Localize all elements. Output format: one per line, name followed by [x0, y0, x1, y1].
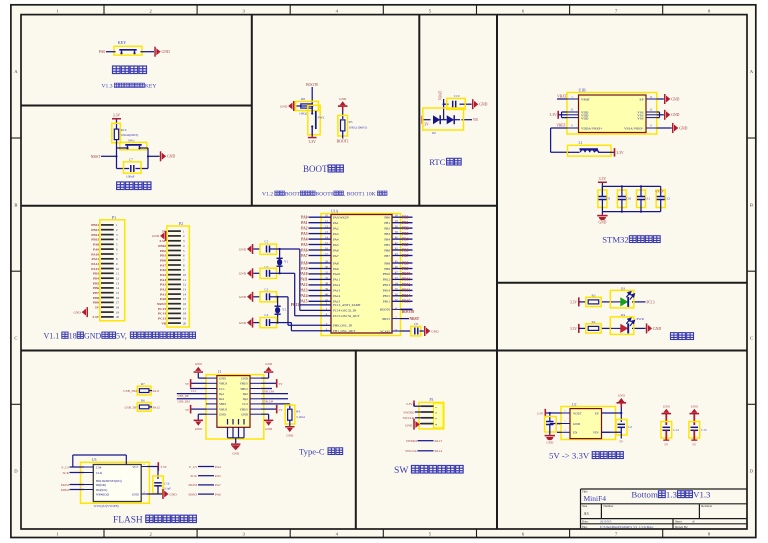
svg-text:SWCLK: SWCLK [403, 416, 415, 420]
resistor R3 [586, 297, 601, 306]
pin P2-20 [168, 322, 181, 324]
wire PB5 [401, 244, 413, 246]
ground GND shield [231, 443, 241, 450]
pin PA5 [321, 244, 331, 246]
svg-text:GND: GND [280, 104, 288, 108]
svg-text:5V,: 5V, [116, 331, 127, 340]
svg-text:PA9: PA9 [333, 267, 339, 271]
svg-text:BOOT0: BOOT0 [315, 191, 333, 197]
svg-text:PA12: PA12 [333, 283, 341, 287]
wire shield [228, 437, 245, 439]
svg-text:3.3V: 3.3V [550, 113, 557, 117]
pin PA8 [321, 262, 331, 264]
wire PB1 [401, 222, 413, 224]
capacitor C9 [598, 190, 607, 208]
wire loop [117, 147, 128, 149]
capacitor C10 [617, 190, 626, 208]
svg-text:GND: GND [546, 440, 554, 444]
pin DO [84, 489, 93, 491]
svg-text:GND: GND [653, 327, 661, 331]
pin P2-10 [168, 274, 181, 276]
svg-text:VREF: VREF [556, 124, 565, 128]
svg-text:C12: C12 [665, 196, 671, 200]
svg-text:RTC: RTC [429, 157, 445, 167]
wire VDD bracket [561, 112, 563, 118]
svg-text:PA2: PA2 [333, 226, 339, 230]
svg-text:SWDIO: SWDIO [403, 410, 415, 414]
wire cap rail top [602, 185, 660, 187]
svg-text:5.1KΩ: 5.1KΩ [296, 415, 305, 419]
wire Dp1 USB_DP [177, 393, 206, 395]
svg-text:L1: L1 [579, 141, 583, 145]
svg-text:PB13: PB13 [91, 228, 99, 232]
wire PB12 [401, 284, 413, 286]
svg-text:EP: EP [640, 98, 644, 102]
svg-text:3.3V: 3.3V [599, 177, 607, 181]
wire PA8 [309, 262, 322, 264]
wire GND bottom-left [198, 413, 206, 415]
svg-text:1.3: 1.3 [666, 490, 678, 500]
svg-text:17: 17 [116, 301, 120, 305]
pin PA11 [321, 278, 331, 280]
pin P1-12 [101, 277, 114, 279]
svg-text:NRST: NRST [382, 317, 390, 321]
svg-text:10KΩ: 10KΩ [299, 112, 308, 116]
svg-text:PA14: PA14 [299, 294, 307, 298]
wire PB14 [401, 295, 413, 297]
ground GND [194, 367, 203, 373]
ground GND [154, 47, 160, 57]
svg-text:CLK: CLK [96, 471, 103, 475]
pin P1-8 [101, 258, 114, 260]
svg-text:DI(IO0): DI(IO0) [96, 483, 106, 487]
pin P2-6 [168, 254, 181, 256]
svg-text:KEY: KEY [118, 40, 127, 45]
pin P1-6 [101, 248, 114, 250]
pin P2-13 [168, 288, 181, 290]
wire CC1 [190, 388, 206, 390]
svg-text:PB5: PB5 [384, 243, 390, 247]
svg-text:PB10: PB10 [158, 244, 166, 248]
svg-text:SCK: SCK [190, 474, 197, 478]
pin P2-18 [168, 312, 181, 314]
ground GND [264, 367, 273, 373]
svg-text:5V: 5V [185, 408, 190, 412]
svg-text:KEY: KEY [145, 84, 157, 90]
svg-text:F_CS: F_CS [189, 465, 197, 469]
svg-text:PA15: PA15 [91, 267, 99, 271]
wire [253, 248, 260, 250]
svg-text:PA10: PA10 [333, 272, 341, 276]
svg-text:3.3V: 3.3V [570, 327, 577, 331]
svg-text:3.3V: 3.3V [92, 315, 99, 319]
svg-text:13: 13 [183, 288, 187, 292]
svg-text:GND: GND [132, 492, 139, 496]
svg-text:PB3: PB3 [93, 272, 99, 276]
power 3.3V out [545, 412, 561, 414]
svg-text:MOSI: MOSI [61, 483, 69, 487]
svg-text:MISO: MISO [61, 488, 70, 492]
svg-text:GND: GND [286, 433, 294, 437]
svg-text:F_CS: F_CS [61, 465, 69, 469]
wire NRST [401, 318, 410, 320]
svg-text:EP: EP [595, 411, 599, 415]
pin PB7 [392, 255, 401, 257]
pin PH0_OSC_IN [321, 324, 331, 326]
pin P1-5 [101, 243, 114, 245]
wire VCAP1 [401, 330, 412, 332]
wire Y2 to PH1 [277, 322, 279, 324]
svg-text:5V: 5V [95, 306, 100, 310]
svg-text:PB9: PB9 [384, 267, 390, 271]
wire PA6 [309, 249, 322, 251]
label 复位电路 [117, 182, 125, 190]
svg-text:R10: R10 [121, 128, 127, 132]
svg-text:PA2: PA2 [160, 288, 166, 292]
svg-text:CC1: CC1 [219, 387, 225, 391]
svg-text:FLASH: FLASH [113, 516, 143, 526]
pin P1-15 [101, 292, 114, 294]
svg-text:PB12: PB12 [402, 283, 410, 287]
svg-text:12: 12 [183, 283, 187, 287]
pin PC13_ANTI_TAMP [321, 304, 331, 306]
svg-text:PA0.WKUP: PA0.WKUP [333, 216, 349, 220]
svg-text:Dp1: Dp1 [219, 392, 225, 396]
wire [579, 301, 586, 303]
svg-text:5V -> 3.3V: 5V -> 3.3V [549, 451, 590, 461]
pin P2-14 [168, 293, 181, 295]
wire GND bottom-right [261, 413, 269, 415]
svg-text:PA10: PA10 [91, 252, 99, 256]
svg-text:PA4: PA4 [215, 465, 221, 469]
label 指示灯 [670, 333, 677, 340]
wire SBU2 [261, 388, 272, 390]
pin P1-10 [101, 268, 114, 270]
pin PB5 [392, 244, 401, 246]
pin P1-3 [101, 234, 114, 236]
pin CS [84, 466, 93, 468]
svg-text:PB15: PB15 [402, 300, 410, 304]
svg-text:PA6: PA6 [301, 248, 308, 252]
svg-text:5V: 5V [185, 382, 190, 386]
svg-text:20: 20 [183, 321, 187, 325]
pin PB4 [392, 238, 401, 240]
svg-text:Dn1: Dn1 [219, 397, 225, 401]
svg-text:USB_DP: USB_DP [178, 394, 190, 398]
svg-text:VDD: VDD [581, 116, 589, 120]
svg-text:GND: GND [691, 404, 699, 408]
svg-text:C1: C1 [557, 422, 561, 426]
svg-text:5V: 5V [279, 382, 284, 386]
svg-text:Bottom: Bottom [631, 490, 658, 500]
svg-text:R4: R4 [296, 410, 300, 414]
svg-text:PA10: PA10 [299, 272, 307, 276]
svg-text:PA9: PA9 [93, 247, 99, 251]
pin PC15-OSC32_OUT [321, 315, 331, 317]
svg-text:C11: C11 [645, 196, 651, 200]
wire VIN [602, 431, 622, 433]
svg-text:C16: C16 [164, 482, 170, 486]
pin P1-20 [101, 316, 114, 318]
svg-text:10KΩ (0603): 10KΩ (0603) [349, 126, 367, 130]
resistor R10 [112, 123, 121, 142]
pin PB12 [392, 278, 401, 280]
svg-text:18: 18 [116, 306, 120, 310]
ground GND [264, 420, 273, 426]
svg-text:PA11: PA11 [300, 278, 308, 282]
svg-text:PB7: PB7 [384, 254, 390, 258]
svg-text:SCK: SCK [63, 471, 70, 475]
wire [311, 87, 313, 106]
power 5V left [191, 382, 206, 384]
power 3.3V [308, 137, 317, 139]
svg-text:BOOT0: BOOT0 [402, 310, 414, 314]
svg-text:SWDIO: SWDIO [406, 439, 418, 443]
wire VSS bracket [659, 112, 661, 118]
wire PA13 [309, 289, 322, 291]
svg-text:PC13: PC13 [647, 300, 655, 304]
svg-text:10: 10 [183, 273, 187, 277]
svg-text:R8: R8 [301, 97, 305, 101]
svg-text:100nF: 100nF [126, 175, 135, 179]
pin PB10 [392, 273, 401, 275]
svg-text:NRST: NRST [157, 302, 167, 306]
wire Y2 to PH0 [277, 296, 279, 298]
node VBAT [557, 98, 567, 100]
svg-text:PB1: PB1 [160, 254, 166, 258]
pin P3-2 [421, 411, 434, 413]
svg-text:PA0: PA0 [301, 216, 308, 220]
wire PB8 [401, 262, 413, 264]
wire PA14 [309, 295, 322, 297]
svg-text:E:\51hei\MiniF4\MiniF4_V2_1.3.: E:\51hei\MiniF4\MiniF4_V2_1.3.SchDoc [600, 525, 654, 529]
svg-text:PA12: PA12 [153, 405, 161, 409]
capacitor C2 [616, 420, 627, 436]
pin PA13 [321, 289, 331, 291]
wire GND top-left [198, 377, 206, 379]
pin P1-16 [101, 297, 114, 299]
svg-text:PA6: PA6 [333, 248, 339, 252]
svg-text:PA7: PA7 [215, 483, 221, 487]
svg-text:PA14: PA14 [333, 294, 341, 298]
svg-text:PB15: PB15 [91, 238, 99, 242]
svg-text:PA11: PA11 [153, 389, 160, 393]
pin PA3 [321, 233, 331, 235]
wire PA5 [309, 244, 322, 246]
capacitor C16 [157, 467, 159, 480]
shield pins [227, 427, 229, 438]
pin P1-4 [101, 238, 114, 240]
svg-text:GND: GND [618, 394, 626, 398]
wire [253, 272, 260, 274]
wire PA10 [309, 273, 322, 275]
svg-text:C10: C10 [626, 196, 632, 200]
svg-text:V1.3: V1.3 [102, 84, 113, 90]
svg-text:PB3: PB3 [402, 232, 409, 236]
pin DI [84, 484, 93, 486]
ground GND VSS [664, 110, 670, 120]
svg-text:USB_DM: USB_DM [178, 399, 191, 403]
capacitor C1 [545, 417, 557, 433]
pin PB6 [392, 249, 401, 251]
pin P2-8 [168, 264, 181, 266]
svg-text:GND: GND [239, 321, 247, 325]
svg-text:C2: C2 [628, 425, 632, 429]
ground GND below R4 [285, 426, 294, 432]
svg-text:VBUS: VBUS [240, 407, 249, 411]
svg-text:5V: 5V [692, 442, 697, 446]
svg-text:C4: C4 [264, 313, 268, 317]
pin PB3 [392, 233, 401, 235]
svg-text:PC15: PC15 [158, 307, 166, 311]
pin PA6 [321, 249, 331, 251]
svg-text:PA14: PA14 [435, 449, 443, 453]
pin PB2 [392, 227, 401, 229]
svg-text:PB14: PB14 [91, 233, 99, 237]
svg-text:C15: C15 [701, 428, 707, 432]
pin P2-4 [168, 245, 181, 247]
svg-text:PB1: PB1 [384, 221, 390, 225]
svg-text:19: 19 [116, 310, 120, 314]
svg-text:PB15: PB15 [383, 294, 391, 298]
power 3.3V right [614, 148, 616, 157]
svg-text:V1.1: V1.1 [44, 331, 60, 340]
svg-text:EN: EN [573, 431, 578, 435]
svg-text:VCAP1: VCAP1 [380, 329, 390, 333]
svg-text:PC13: PC13 [158, 317, 166, 321]
pin P3-4 [421, 423, 434, 425]
wire PB11 [401, 278, 413, 280]
pin PA14 [321, 295, 331, 297]
svg-text:PB6: PB6 [93, 286, 99, 290]
svg-text:PB8: PB8 [384, 261, 390, 265]
svg-text:Title: Title [582, 489, 588, 493]
svg-text:Number: Number [604, 504, 614, 508]
svg-text:PA8: PA8 [93, 243, 99, 247]
svg-text:PC13_ANTI_TAMP: PC13_ANTI_TAMP [333, 303, 361, 307]
svg-text:PB8: PB8 [93, 296, 99, 300]
power 5V left row7 [191, 408, 206, 410]
svg-text:PA11: PA11 [91, 257, 99, 261]
pin PB1 [392, 222, 401, 224]
svg-text:GND: GND [219, 413, 226, 417]
svg-text:GND: GND [195, 362, 203, 366]
svg-text:PA8: PA8 [301, 261, 308, 265]
svg-text:CC2: CC2 [242, 402, 248, 406]
svg-text:3.3V: 3.3V [617, 151, 624, 155]
svg-text:PA6: PA6 [160, 268, 166, 272]
svg-text:GND: GND [671, 113, 679, 117]
svg-text:C7: C7 [129, 157, 133, 161]
svg-text:PA9: PA9 [301, 267, 308, 271]
pin PA9 [321, 268, 331, 270]
ground GND left [288, 101, 294, 111]
svg-text:2015/9/5: 2015/9/5 [600, 520, 612, 524]
svg-text:WP#(IO2): WP#(IO2) [96, 493, 109, 497]
svg-text:PB10: PB10 [383, 272, 391, 276]
svg-text:PB5: PB5 [93, 281, 99, 285]
svg-text:VBUS: VBUS [219, 407, 228, 411]
svg-text:C9: C9 [606, 196, 610, 200]
svg-text:11: 11 [116, 272, 119, 276]
svg-text:GND: GND [241, 413, 248, 417]
svg-text:PA5: PA5 [301, 243, 308, 247]
wire PB10 [401, 273, 413, 275]
pin PB8 [392, 262, 401, 264]
svg-text:PB13: PB13 [383, 283, 391, 287]
ground GND [646, 323, 652, 333]
crystal Y2 [277, 297, 279, 306]
svg-text:PB9: PB9 [402, 267, 409, 271]
svg-text:18: 18 [183, 312, 187, 316]
svg-text:PB0: PB0 [402, 216, 409, 220]
svg-text:SWCLK: SWCLK [405, 449, 417, 453]
svg-text:17: 17 [183, 307, 187, 311]
resistor R5 [338, 115, 348, 136]
svg-text:C: C [750, 336, 753, 341]
svg-text:A3: A3 [584, 511, 589, 516]
wire EN [557, 431, 561, 433]
wire PA9 [309, 268, 322, 270]
svg-text:GND: GND [265, 362, 273, 366]
svg-text:Dn2: Dn2 [243, 392, 249, 396]
svg-text:13: 13 [116, 281, 120, 285]
resistor R4 [285, 405, 295, 424]
svg-text:Dp2: Dp2 [243, 397, 249, 401]
svg-text:GND: GND [671, 97, 679, 101]
svg-text:GND: GND [239, 272, 247, 276]
svg-text:C14: C14 [673, 428, 679, 432]
svg-text:PA7: PA7 [301, 254, 308, 258]
svg-text:PB6: PB6 [402, 248, 409, 252]
svg-text:PA5: PA5 [215, 474, 221, 478]
wire PB4 [401, 238, 413, 240]
svg-text:PA13: PA13 [435, 439, 443, 443]
crystal Y1 [279, 249, 281, 258]
wire Dp2 USB_DP [261, 398, 288, 400]
svg-text:3.3V: 3.3V [160, 465, 167, 469]
pin PB13 [392, 284, 401, 286]
svg-text:PB2: PB2 [384, 226, 390, 230]
pin PB0 [392, 216, 401, 218]
svg-text:B: B [750, 202, 753, 207]
power 5V right [261, 382, 276, 384]
svg-text:BOOT: BOOT [285, 191, 301, 197]
svg-text:3.3V: 3.3V [113, 113, 121, 117]
svg-text:VBAT: VBAT [438, 90, 442, 100]
pin P1-19 [101, 311, 114, 313]
wire PA11 [309, 278, 322, 280]
svg-text:PA3: PA3 [160, 283, 166, 287]
svg-text:of: of [692, 520, 695, 524]
svg-text:R2: R2 [592, 320, 596, 324]
svg-text:MiniF4: MiniF4 [584, 494, 607, 503]
svg-text:C3: C3 [264, 287, 268, 291]
svg-text:GND: GND [84, 331, 102, 340]
svg-text:PC15-OSC32_OUT: PC15-OSC32_OUT [333, 314, 360, 318]
wire Dn1 USB_DM [177, 398, 206, 400]
pin P2-1 [168, 230, 181, 232]
wire Y1 to PC15 [279, 272, 281, 274]
resistor R8 [296, 101, 319, 110]
capacitor C7 [124, 162, 142, 173]
wire [443, 99, 445, 120]
pin P2-15 [168, 298, 181, 300]
svg-text:VCC: VCC [132, 465, 138, 469]
svg-text:PB10: PB10 [402, 272, 410, 276]
svg-text:GND: GND [339, 97, 347, 101]
svg-text:PA3: PA3 [333, 232, 339, 236]
